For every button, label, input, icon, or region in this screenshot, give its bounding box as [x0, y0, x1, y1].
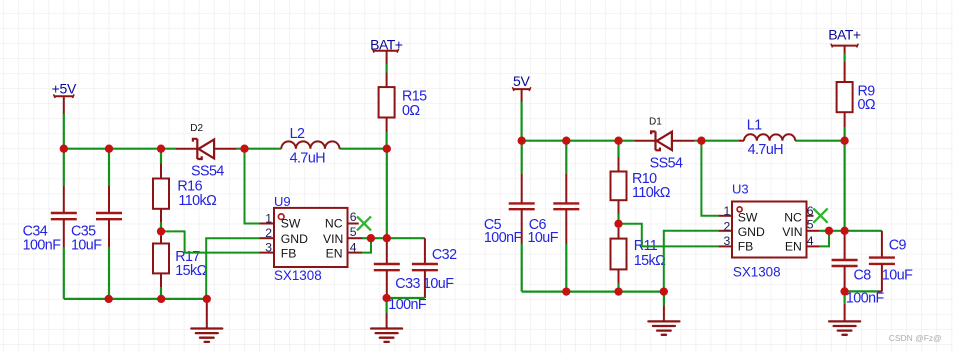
wire diode D1 to inductor L1 [695, 140, 739, 142]
pin 3 stub U3 [719, 245, 732, 247]
wire bottom rail right circuit [522, 291, 664, 293]
pin 1 stub U3 [719, 215, 732, 217]
label C6 [529, 217, 547, 233]
inductor L1 [738, 134, 795, 140]
node C35 bottom [105, 295, 113, 303]
value 15k (R17) [175, 263, 207, 279]
node C6 top [562, 137, 570, 145]
svg-text:U3: U3 [732, 182, 749, 197]
svg-text:FB: FB [738, 239, 754, 253]
label C9 [889, 238, 907, 254]
label R11 [634, 238, 658, 254]
pin number 1 (U9) [265, 212, 272, 226]
node R16 top [157, 145, 165, 153]
svg-text:10uF: 10uF [882, 267, 913, 283]
power flag 5V [512, 73, 530, 102]
label R15 [402, 89, 427, 105]
no-connect X pin 6 (U3) [813, 208, 827, 222]
wire C32 bottom return [387, 297, 425, 299]
pin 6 stub U3 [807, 215, 814, 217]
svg-text:C8: C8 [854, 267, 872, 283]
op-amp U3 (SX1308 IC) [732, 202, 807, 258]
svg-text:4.7uH: 4.7uH [290, 151, 326, 167]
wire diode to inductor [237, 148, 282, 150]
value 110k (R10) [632, 185, 671, 201]
svg-text:D1: D1 [649, 117, 662, 128]
node VOUT top right [840, 137, 848, 145]
svg-text:C9: C9 [889, 238, 907, 254]
svg-text:4: 4 [350, 241, 357, 255]
svg-text:4: 4 [807, 234, 814, 248]
wire pin 5 VIN net [362, 237, 425, 239]
power flag BAT+ (left) [370, 36, 403, 64]
label R9 [858, 84, 876, 100]
label C34 [23, 223, 48, 239]
svg-text:110kΩ: 110kΩ [632, 185, 671, 201]
wire VOUT node down to VIN [386, 149, 388, 239]
svg-text:3: 3 [724, 234, 731, 248]
svg-text:3: 3 [265, 241, 272, 255]
svg-text:0Ω: 0Ω [402, 103, 420, 119]
pin name EN (U9) [326, 246, 343, 260]
svg-text:10uF: 10uF [423, 276, 454, 292]
resistor R10 [611, 141, 627, 224]
ground right of U9 [371, 298, 402, 342]
pin 5 stub U9 [348, 237, 363, 239]
label C32 [432, 247, 457, 263]
capacitor C6 [553, 141, 579, 292]
pin name FB (U9) [281, 246, 297, 260]
resistor R15 [379, 64, 395, 149]
label C8 [854, 267, 872, 283]
pin number 2 (U9) [265, 226, 272, 240]
wire VOUT down to VIN (right) [843, 141, 845, 231]
node VOUT top [383, 145, 391, 153]
svg-text:2: 2 [724, 220, 731, 234]
svg-text:EN: EN [326, 246, 343, 260]
power flag BAT+ (right) [828, 27, 861, 54]
capacitor C5 [509, 141, 535, 292]
pin name SW (U9) [281, 217, 301, 231]
svg-text:4.7uH: 4.7uH [748, 142, 784, 158]
value 0 ohm (R9) [858, 97, 876, 113]
pin name NC (U9) [325, 217, 343, 231]
wire FB divider to pin 3 [161, 231, 260, 252]
ground left circuit [191, 299, 222, 342]
svg-text:NC: NC [784, 210, 802, 224]
pin number 3 (U9) [265, 241, 272, 255]
svg-text:R15: R15 [402, 89, 427, 105]
wire pin 1 SW net (U3) [701, 141, 718, 216]
label U9 [274, 194, 291, 209]
resistor R17 [153, 236, 169, 299]
svg-text:15kΩ: 15kΩ [634, 253, 666, 269]
value 10uF (C9) [882, 267, 913, 283]
node C6 bottom [562, 287, 570, 295]
watermark [889, 333, 942, 343]
pin 1 stub U9 [260, 223, 275, 225]
node R10 top [614, 137, 622, 145]
svg-text:NC: NC [325, 217, 343, 231]
node R11 bottom [614, 287, 622, 295]
pin name VIN (U9) [323, 232, 343, 246]
node C8/ground [840, 287, 848, 295]
svg-text:FB: FB [281, 246, 297, 260]
svg-text:2: 2 [265, 226, 272, 240]
value 15k (R11) [634, 253, 666, 269]
svg-text:SW: SW [738, 210, 758, 224]
value SS54 (D2) [191, 164, 224, 180]
svg-text:CSDN @Fz@: CSDN @Fz@ [889, 333, 942, 343]
capacitor C34 [51, 149, 77, 299]
pin name GND (U3) [738, 225, 765, 239]
svg-text:110kΩ: 110kΩ [178, 193, 217, 209]
value 110k (R16) [178, 193, 217, 209]
svg-text:5: 5 [807, 217, 814, 231]
label U3 [732, 182, 749, 197]
value SX1308 (U9) [274, 268, 322, 283]
node VIN/C8 [840, 227, 848, 235]
node FB divider [157, 227, 165, 235]
label L1 [747, 118, 762, 134]
op-amp U9 (SX1308 IC) [274, 208, 348, 267]
node EN/VIN right [825, 227, 833, 235]
pin name SW (U3) [738, 210, 758, 224]
wire top rail left [64, 148, 176, 150]
svg-text:100nF: 100nF [846, 291, 885, 307]
wire pin 4 EN to VIN (U3) [820, 231, 829, 247]
resistor R11 [611, 228, 627, 292]
pin name VIN (U3) [782, 225, 802, 239]
wire FB divider to pin 3 (U3) [619, 224, 719, 247]
node R17 bottom [157, 295, 165, 303]
svg-text:1: 1 [265, 212, 272, 226]
node 5V/C5 [518, 137, 526, 145]
pin number 2 (U3) [724, 220, 731, 234]
pin number 4 (U3) [807, 234, 814, 248]
wire inductor to R15 node [340, 148, 387, 150]
pin name EN (U3) [785, 239, 802, 253]
pin name FB (U3) [738, 239, 754, 253]
svg-text:VIN: VIN [782, 225, 802, 239]
node D1 anode / SW [697, 137, 705, 145]
label C5 [484, 217, 502, 233]
svg-text:5V: 5V [513, 73, 530, 89]
wire inductor L1 to R9 node [795, 140, 844, 142]
svg-text:6: 6 [350, 210, 357, 224]
node GND rail [203, 295, 211, 303]
wire pin 5 VIN net (U3) [820, 230, 882, 232]
capacitor C8 [832, 231, 858, 292]
value 100nF (C34) [23, 238, 62, 254]
pin 4 stub U9 [348, 252, 363, 254]
value SX1308 (U3) [733, 265, 781, 280]
node GND rail right [660, 287, 668, 295]
label D2 [190, 123, 203, 134]
inductor L2 [281, 141, 339, 148]
wire top rail right circuit [522, 140, 635, 142]
node +5V/C34 [60, 145, 68, 153]
value 10uF (C6) [528, 230, 559, 246]
svg-text:GND: GND [281, 232, 308, 246]
svg-text:1: 1 [724, 204, 731, 218]
value 100nF (C8) [846, 291, 885, 307]
svg-text:BAT+: BAT+ [370, 36, 403, 52]
node C33/ground [382, 294, 390, 302]
label R17 [175, 249, 200, 265]
wire pin 1 SW net [245, 149, 260, 224]
pin name NC (U3) [784, 210, 802, 224]
capacitor C33 [374, 238, 400, 298]
capacitor C9 [869, 231, 895, 292]
pin 6 stub U9 [348, 223, 359, 225]
value 10uF (C32) [423, 276, 454, 292]
node FB divider right [614, 220, 622, 228]
resistor R16 [153, 149, 169, 232]
value 10uF (C35) [71, 238, 102, 254]
capacitor C32 [412, 238, 438, 298]
svg-text:100nF: 100nF [484, 230, 523, 246]
pin number 5 (U3) [807, 217, 814, 231]
capacitor C35 [96, 149, 122, 299]
value 4.7uH (L2) [290, 151, 326, 167]
svg-text:SS54: SS54 [650, 155, 683, 171]
value 0 ohm (R15) [402, 103, 420, 119]
value 100nF (C5) [484, 230, 523, 246]
pin 2 stub U9 [260, 237, 275, 239]
pin number 6 (U9) [350, 210, 357, 224]
label C33 [395, 276, 420, 292]
svg-text:C32: C32 [432, 247, 457, 263]
pin number 3 (U3) [724, 234, 731, 248]
svg-text:10uF: 10uF [71, 238, 102, 254]
svg-text:6: 6 [807, 204, 814, 218]
wire C9 bottom return [845, 290, 882, 292]
svg-text:100nF: 100nF [23, 238, 62, 254]
resistor R9 [837, 54, 853, 141]
svg-text:100nF: 100nF [388, 297, 427, 313]
label R16 [177, 178, 202, 194]
svg-text:C33: C33 [395, 276, 420, 292]
value 4.7uH (L1) [748, 142, 784, 158]
pin 2 stub U3 [719, 230, 732, 232]
wire pin 4 EN to VIN [362, 238, 371, 252]
diode D2 [176, 139, 237, 159]
svg-text:0Ω: 0Ω [858, 97, 876, 113]
ground right circuit [648, 292, 679, 335]
svg-text:EN: EN [785, 239, 802, 253]
pin number 6 (U3) [807, 204, 814, 218]
pin number 1 (U3) [724, 204, 731, 218]
pin name GND (U9) [281, 232, 308, 246]
value 100nF (C33) [388, 297, 427, 313]
wire 5V stub [520, 102, 522, 141]
label R10 [632, 171, 657, 187]
svg-text:SW: SW [281, 217, 301, 231]
ground under C8 [829, 291, 860, 334]
svg-text:L1: L1 [747, 118, 762, 134]
svg-text:GND: GND [738, 225, 765, 239]
svg-text:U9: U9 [274, 194, 291, 209]
svg-text:10uF: 10uF [528, 230, 559, 246]
diode D1 [634, 132, 694, 151]
label L2 [290, 126, 305, 142]
svg-text:15kΩ: 15kΩ [175, 263, 207, 279]
svg-text:SX1308: SX1308 [733, 265, 781, 280]
svg-text:D2: D2 [190, 123, 203, 134]
node EN/VIN [367, 234, 375, 242]
svg-text:SS54: SS54 [191, 164, 224, 180]
power flag +5V [52, 81, 77, 115]
wire bottom rail left circuit [64, 298, 207, 300]
label D1 [649, 117, 662, 128]
label C35 [71, 223, 96, 239]
wire +5V stub [63, 114, 65, 149]
svg-text:BAT+: BAT+ [828, 27, 861, 43]
svg-text:5: 5 [350, 225, 357, 239]
value SS54 (D1) [650, 155, 683, 171]
wire GND pin 2 to rail (U3) [664, 231, 719, 292]
pin 3 stub U9 [260, 252, 275, 254]
no-connect X pin 6 (U9) [357, 216, 371, 230]
pin number 5 (U9) [350, 225, 357, 239]
svg-text:L2: L2 [290, 126, 305, 142]
node VIN/C33 [383, 234, 391, 242]
pin 5 stub U3 [807, 230, 820, 232]
pin 4 stub U3 [807, 245, 820, 247]
wire GND pin 2 to rail [206, 238, 259, 299]
svg-text:+5V: +5V [52, 81, 77, 97]
svg-text:VIN: VIN [323, 232, 343, 246]
node diode anode / SW [240, 145, 248, 153]
node C35 [105, 145, 113, 153]
pin number 4 (U9) [350, 241, 357, 255]
svg-text:SX1308: SX1308 [274, 268, 322, 283]
